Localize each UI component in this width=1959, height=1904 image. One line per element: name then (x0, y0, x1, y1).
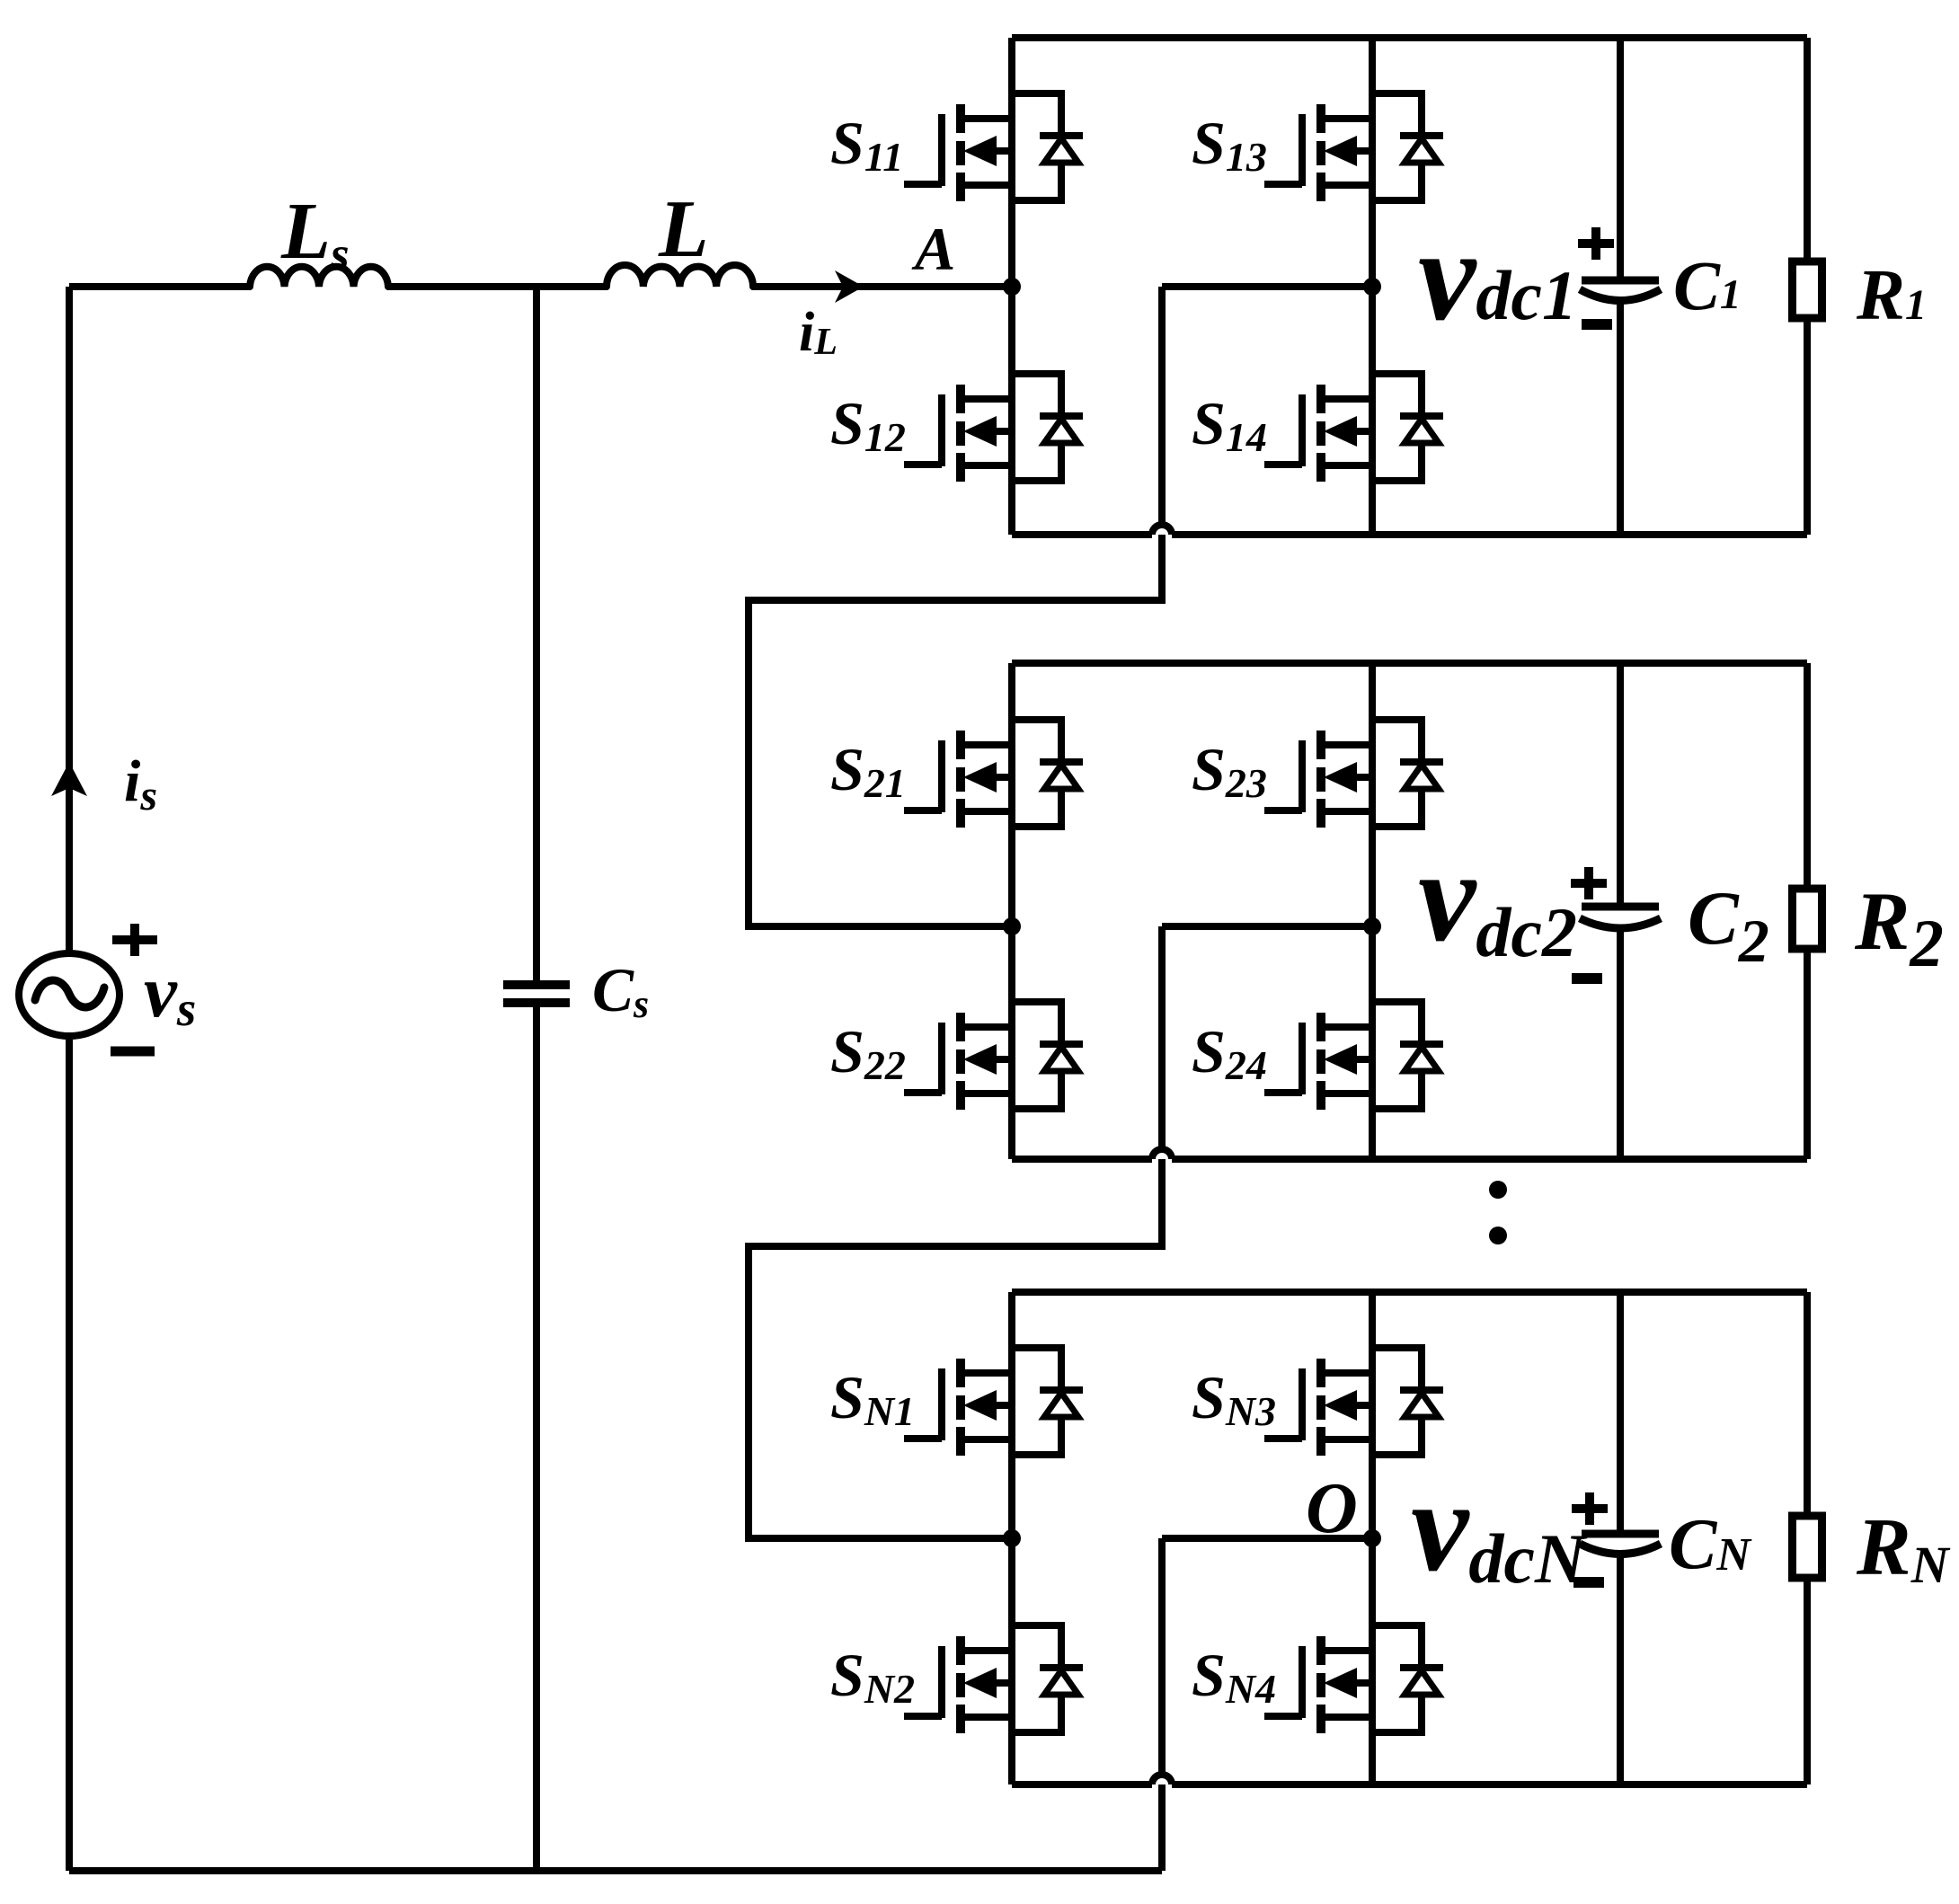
svg-text:L: L (658, 183, 709, 274)
svg-text:O: O (1306, 1469, 1358, 1548)
svg-text:A: A (911, 215, 955, 283)
